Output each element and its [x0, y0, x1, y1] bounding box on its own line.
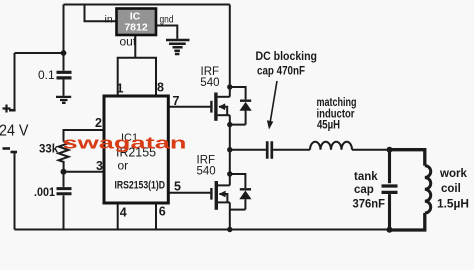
svg-text:gnd: gnd	[160, 15, 174, 26]
wire battery minus lead	[14, 152, 16, 230]
diode D2 triangle	[239, 191, 251, 200]
wire Q1 diode top branch	[230, 87, 246, 99]
node junction half-bridge midpoint	[227, 147, 232, 152]
wire Q1 drain to top rail	[229, 5, 231, 97]
transistor Q1 arrow head	[218, 103, 225, 110]
wire pin 3 to RC node	[64, 171, 106, 173]
capacitor tank bottom lead	[388, 194, 391, 230]
wire battery plus lead	[14, 53, 16, 110]
capacitor .001 plates	[57, 189, 72, 194]
wire .001 cap top lead	[63, 172, 65, 187]
svg-text:3: 3	[96, 159, 103, 173]
svg-text:tank: tank	[354, 171, 378, 183]
wire pin 7 to upper gate	[169, 106, 210, 108]
svg-text:376nF: 376nF	[353, 199, 386, 211]
svg-text:45µH: 45µH	[317, 120, 340, 132]
svg-text:swagatan: swagatan	[63, 135, 187, 153]
svg-text:540: 540	[197, 166, 216, 178]
node junction Q2 source at rail	[227, 227, 232, 232]
svg-text:7: 7	[173, 94, 180, 108]
battery plus sign	[3, 105, 11, 113]
diode D2 anode lead	[244, 199, 246, 209]
capacitor DC blocking 470nF plates	[267, 141, 272, 159]
diode D1 triangle	[240, 102, 252, 111]
svg-text:in: in	[105, 14, 113, 26]
svg-text:6: 6	[159, 205, 166, 219]
transistor Q1 drain stub	[218, 96, 230, 98]
diode D1 anode lead	[245, 111, 247, 125]
capacitor 0.1 plates	[57, 72, 72, 78]
node junction at 33k/.001/pin3	[61, 169, 67, 175]
svg-text:.001: .001	[34, 187, 56, 199]
svg-text:540: 540	[200, 77, 219, 89]
svg-text:33k: 33k	[39, 144, 59, 156]
transistor Q1 channel bar	[214, 93, 217, 121]
wire pin 6 to ground rail	[155, 203, 157, 230]
diode D2 cathode bar	[240, 188, 251, 190]
node junction Q1 drain/diode	[227, 84, 232, 89]
svg-text:matching: matching	[317, 97, 357, 109]
wire tank node to work coil top	[390, 150, 425, 166]
svg-text:or: or	[118, 159, 129, 173]
ground bottom rail	[15, 229, 390, 231]
wire Q1 diode bottom branch	[230, 124, 246, 126]
transistor Q2 source stub	[218, 201, 230, 203]
svg-text:cap 470nF: cap 470nF	[257, 66, 305, 78]
wire 7812 gnd lead	[156, 26, 177, 39]
inductor work coil	[425, 166, 431, 213]
wire from battery plus to 0.1 node	[15, 52, 64, 54]
regulator U2 7812 body	[117, 9, 157, 36]
node junction tank top	[387, 147, 393, 153]
capacitor tank top lead	[388, 150, 391, 184]
svg-text:out: out	[120, 35, 137, 49]
wire Q2 source to ground rail	[229, 202, 231, 229]
IC U1 IR2155 driver box	[104, 96, 168, 203]
ground symbol at 7812	[166, 40, 190, 54]
battery BT1 minus terminal	[11, 151, 18, 154]
node junction at 0.1 cap	[61, 50, 67, 56]
battery BT1 plus terminal	[9, 109, 16, 112]
svg-text:8: 8	[157, 81, 164, 95]
transistor Q2 drain stub	[218, 184, 230, 186]
wire top supply rail	[64, 4, 230, 6]
wire 0.1 cap bottom lead	[63, 80, 65, 96]
transistor Q2 IRF540 gate bar	[210, 188, 212, 200]
wire midpoint down to Q2 drain	[229, 150, 231, 186]
wire Q2 diode top branch	[230, 174, 246, 188]
node junction Q2 drain/diode	[227, 171, 232, 176]
capacitor tank 376nF plates	[382, 186, 398, 192]
svg-text:7812: 7812	[124, 22, 148, 34]
svg-text:2: 2	[95, 116, 102, 130]
wire 0.1 cap top lead	[63, 53, 65, 71]
transistor Q2 channel bar	[215, 181, 218, 210]
wire cap to matching inductor	[273, 149, 310, 151]
svg-text:coil: coil	[441, 183, 461, 195]
wire 7812 out lead	[134, 35, 136, 58]
wire pin 4 to ground rail	[117, 203, 119, 230]
node junction tank bottom	[387, 227, 393, 233]
transistor Q2 source arrow stub	[219, 194, 227, 202]
svg-text:DC blocking: DC blocking	[256, 51, 318, 63]
svg-text:work: work	[439, 168, 467, 180]
node junction Q1 source/diode	[227, 122, 232, 127]
wire left drop from top rail	[63, 5, 65, 54]
wire .001 cap bottom lead	[63, 195, 65, 229]
resistor 33k	[59, 142, 69, 172]
svg-text:1: 1	[117, 82, 124, 96]
svg-text:24 V: 24 V	[0, 123, 29, 140]
wire inductor to tank node	[352, 149, 390, 151]
wire midpoint to DC blocking cap	[230, 149, 266, 151]
transistor Q1 IRF540 gate bar	[210, 101, 212, 113]
wire work coil bottom return	[390, 213, 425, 230]
diode D1 cathode bar	[240, 99, 251, 101]
wire feed to 7812 input	[85, 5, 117, 22]
battery minus sign	[3, 147, 11, 150]
transistor Q2 arrow head	[219, 191, 226, 198]
svg-text:cap: cap	[354, 184, 374, 196]
svg-text:IRS2153(1)D: IRS2153(1)D	[115, 180, 166, 192]
transistor Q1 source stub	[218, 114, 230, 116]
wire Q1 source down to midpoint	[229, 115, 231, 150]
svg-text:1.5µH: 1.5µH	[437, 199, 469, 211]
ground symbol under 0.1 cap	[56, 97, 71, 103]
transistor Q1 source arrow stub	[219, 107, 227, 115]
svg-text:5: 5	[174, 180, 181, 194]
wire Q2 diode bottom branch	[230, 209, 246, 211]
wire pin 5 to lower gate	[169, 192, 210, 194]
svg-text:0.1: 0.1	[38, 68, 55, 82]
wire Vcc distribution to pins 1 and 8	[118, 58, 156, 96]
wire pin 2 to 33k	[64, 130, 106, 142]
annotation arrow to DC blocking cap	[270, 81, 277, 122]
svg-text:4: 4	[120, 206, 127, 220]
inductor matching 45uH	[310, 142, 352, 150]
